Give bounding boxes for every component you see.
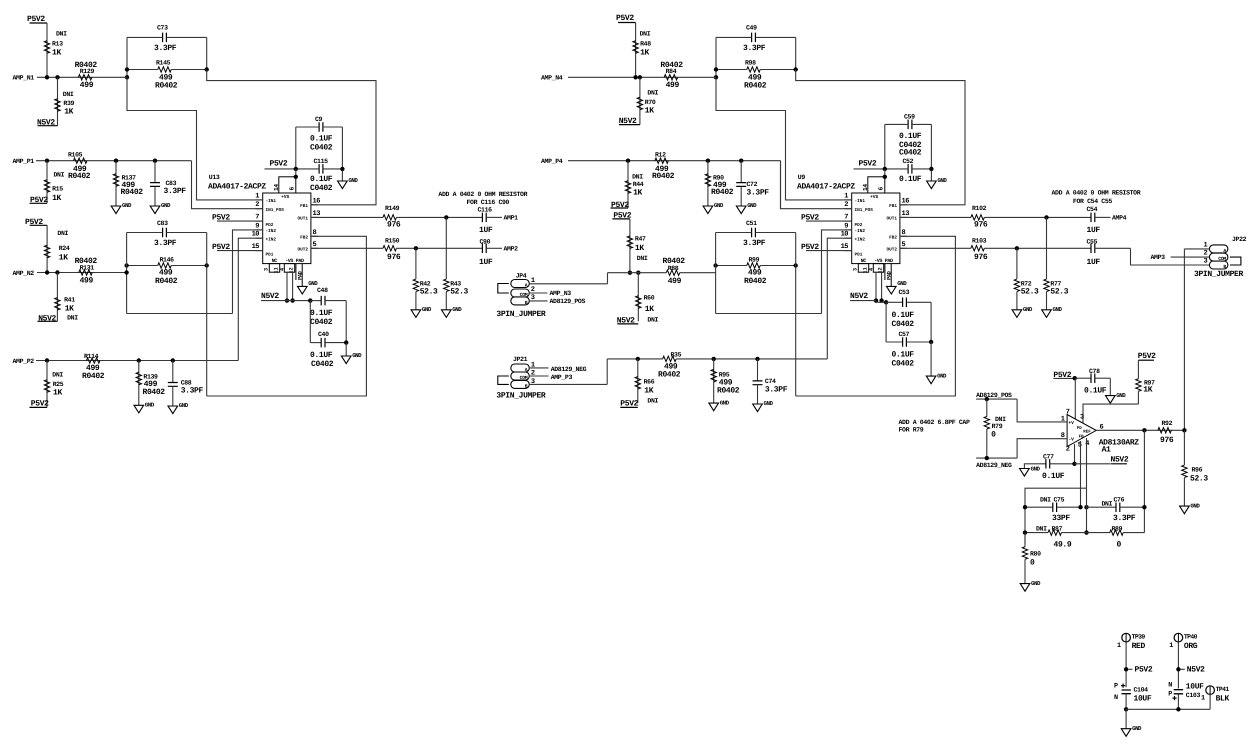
junction (1124, 667, 1128, 671)
pin 13 OUT1 (311, 216, 318, 218)
svg-text:C0402: C0402 (892, 359, 915, 368)
svg-text:DNI: DNI (57, 230, 68, 237)
svg-text:C73: C73 (157, 25, 168, 32)
ground R96 (1180, 506, 1190, 514)
wire OUT1 row R (984, 216, 1091, 218)
resistor R42 (415, 248, 417, 279)
svg-text:14: 14 (273, 184, 280, 191)
svg-text:ADD A 0402 0 OHM RESISTOR: ADD A 0402 0 OHM RESISTOR (1052, 189, 1141, 196)
svg-text:AMP_N1: AMP_N1 (13, 75, 35, 82)
svg-text:R24: R24 (59, 245, 70, 252)
svg-text:R146: R146 (160, 257, 175, 264)
svg-text:1K: 1K (53, 388, 62, 397)
resistor R103 (900, 247, 971, 249)
svg-text:DNI: DNI (1036, 526, 1047, 533)
capacitor C48 (310, 300, 321, 302)
wire REF route (1025, 488, 1087, 544)
wire FB2 route (796, 236, 956, 396)
svg-text:976: 976 (387, 253, 401, 262)
svg-text:15: 15 (252, 243, 260, 251)
svg-text:3.3PF: 3.3PF (747, 188, 770, 197)
capacitor C40 (310, 342, 321, 344)
svg-text:C116: C116 (478, 207, 493, 214)
svg-text:R102: R102 (972, 205, 987, 212)
svg-text:3.3PF: 3.3PF (743, 239, 766, 248)
resistor R146 (158, 263, 172, 268)
svg-text:976: 976 (974, 221, 988, 230)
svg-text:1K: 1K (65, 304, 74, 313)
wire C51 right (755, 232, 795, 234)
resistor R15 DNI (46, 161, 48, 204)
svg-text:-VS: -VS (285, 258, 293, 264)
resistor R105 (73, 158, 87, 163)
resistor R99 (747, 263, 761, 268)
capacitor C116 (482, 213, 486, 223)
junction (883, 167, 887, 171)
svg-text:FB1: FB1 (889, 204, 897, 209)
svg-text:3.3PF: 3.3PF (743, 44, 766, 53)
wire C115 left (296, 168, 319, 170)
svg-text:N5V2: N5V2 (1187, 666, 1205, 675)
resistor R43 (445, 217, 447, 279)
wire loop left vertical (126, 37, 128, 77)
svg-text:GND: GND (1031, 465, 1041, 472)
svg-text:IN1_POS: IN1_POS (855, 208, 874, 213)
svg-text:DNI: DNI (52, 372, 63, 379)
svg-text:2: 2 (1203, 250, 1207, 258)
resistor R150 (311, 247, 383, 249)
svg-text:12: 12 (288, 267, 294, 273)
svg-text:PD2: PD2 (855, 223, 863, 228)
junction (1023, 530, 1027, 534)
svg-text:10UF: 10UF (1186, 682, 1204, 691)
svg-text:52.3: 52.3 (450, 287, 468, 296)
svg-text:P5V2: P5V2 (616, 14, 634, 23)
ground R139 (134, 405, 144, 413)
capacitor C72 (740, 161, 742, 183)
svg-text:499: 499 (80, 277, 94, 286)
wire -IN2 riser (233, 230, 263, 314)
svg-text:GND: GND (747, 202, 757, 209)
svg-text:DNI: DNI (1102, 500, 1113, 507)
wire R99 left (716, 265, 747, 267)
wire C9 loop right (930, 124, 932, 181)
wire C52 right (912, 168, 932, 170)
svg-text:0.1UF: 0.1UF (1042, 472, 1065, 481)
svg-text:NC: NC (272, 258, 278, 264)
pins 3,11 NC (858, 264, 868, 273)
svg-text:GND: GND (937, 177, 947, 184)
svg-text:C57: C57 (899, 331, 910, 338)
svg-text:C48: C48 (317, 287, 328, 294)
svg-text:4: 4 (869, 268, 875, 271)
svg-text:R87: R87 (1052, 526, 1063, 533)
pins 3,11 NC (269, 264, 279, 273)
svg-text:GND: GND (122, 202, 132, 209)
junction (125, 75, 129, 79)
junction (55, 270, 59, 274)
wire loop2 left vertical (126, 233, 128, 314)
svg-text:+IN2: +IN2 (855, 237, 866, 242)
test point TP39 (1122, 633, 1131, 642)
wire JP22 A to AD8130 out (1183, 249, 1185, 430)
wire OUT2 row (396, 247, 482, 249)
svg-text:FOR C54 C55: FOR C54 C55 (1073, 198, 1113, 205)
junction (884, 300, 888, 304)
wire C59 left (885, 123, 908, 125)
junction (153, 159, 157, 163)
capacitor C78 (1077, 377, 1091, 379)
svg-text:7: 7 (1066, 408, 1070, 416)
wire R146 left (127, 265, 158, 267)
pin 16 FB1 (900, 204, 907, 206)
svg-text:FOR R79: FOR R79 (899, 426, 924, 433)
svg-text:C83: C83 (157, 220, 168, 227)
svg-text:DNI: DNI (632, 173, 643, 180)
wire C78 to ground (1109, 378, 1111, 395)
junction (714, 75, 718, 79)
pins 4,12 -VS (873, 264, 883, 273)
junction (45, 75, 49, 79)
svg-text:499: 499 (748, 269, 762, 278)
svg-text:AMP_P4: AMP_P4 (541, 158, 563, 165)
svg-text:TP41: TP41 (1216, 686, 1230, 693)
junction (638, 75, 642, 79)
junction (444, 215, 448, 219)
svg-text:1UF: 1UF (479, 258, 493, 267)
svg-text:AMP_P1: AMP_P1 (13, 158, 35, 165)
resistor R90 (707, 161, 709, 206)
ground C74 (753, 404, 763, 412)
junction (205, 67, 209, 71)
svg-text:OUT1: OUT1 (297, 217, 308, 222)
svg-text:DNI: DNI (56, 31, 67, 38)
capacitor C51 (752, 228, 756, 238)
svg-text:976: 976 (974, 253, 988, 262)
svg-text:R145: R145 (156, 60, 171, 67)
resistor R25 DNI (46, 361, 48, 408)
wire C104 down (1125, 694, 1127, 710)
ground R95 (709, 403, 719, 411)
svg-text:R44: R44 (633, 181, 644, 188)
svg-text:PAD: PAD (885, 258, 893, 264)
junction (1176, 667, 1180, 671)
resistor R89 (1087, 532, 1111, 534)
svg-text:R0402: R0402 (744, 82, 767, 91)
wire FB2 route (207, 236, 367, 396)
junction (294, 167, 298, 171)
svg-text:FB2: FB2 (300, 236, 308, 241)
svg-text:C90: C90 (480, 239, 491, 246)
svg-text:R13: R13 (52, 41, 63, 48)
wire +IN2 riser (238, 238, 262, 360)
junction (636, 357, 640, 361)
ground R137 (111, 206, 121, 214)
junction (45, 270, 49, 274)
wire FB1 route (207, 70, 376, 205)
capacitor C49 (752, 33, 756, 43)
capacitor C83a (154, 161, 156, 183)
resistor R41 DNI (56, 273, 58, 322)
wire C115 right (323, 168, 343, 170)
junction (1023, 505, 1027, 509)
capacitor C76 DNI (1087, 506, 1116, 508)
wire C48-C40 left (309, 301, 311, 343)
svg-text:-VS: -VS (874, 258, 882, 264)
svg-text:N: N (1168, 681, 1172, 689)
wire PD route (1083, 404, 1138, 423)
wire C9 loop right (341, 127, 343, 181)
wire C53-C57 right (930, 302, 932, 342)
resistor R145 (158, 67, 172, 72)
wire C55 to JP22 (1131, 248, 1210, 265)
svg-text:N5V2: N5V2 (1111, 455, 1129, 464)
svg-text:1: 1 (255, 192, 259, 200)
wire -VS pin4 (875, 272, 877, 300)
svg-text:C0402: C0402 (311, 360, 334, 369)
resistor R87 DNI (1025, 532, 1048, 534)
svg-text:0.1UF: 0.1UF (310, 175, 333, 184)
pin 16 FB1 (311, 204, 318, 206)
junction (344, 340, 348, 344)
svg-text:10: 10 (252, 231, 260, 239)
svg-text:6: 6 (289, 187, 296, 191)
svg-text:GND: GND (714, 202, 724, 209)
svg-text:FOR C116 C90: FOR C116 C90 (467, 199, 510, 206)
resistor R66 DNI (637, 359, 639, 403)
svg-text:NC: NC (861, 258, 867, 264)
resistor R98 (747, 67, 761, 72)
svg-text:AD8129_POS: AD8129_POS (550, 298, 586, 305)
svg-text:DNI: DNI (63, 91, 74, 98)
wire R98 left (716, 69, 747, 71)
svg-text:C0402: C0402 (310, 184, 333, 193)
svg-text:3: 3 (1203, 258, 1207, 266)
wire C40 to ground (345, 343, 347, 356)
wire C49 right (755, 36, 795, 38)
wire C83 left (127, 232, 163, 234)
junction +VS (883, 175, 887, 179)
svg-text:3: 3 (853, 268, 859, 271)
svg-text:C51: C51 (746, 220, 757, 227)
svg-text:C55: C55 (1087, 238, 1098, 245)
junction (929, 167, 933, 171)
wire to GND (1125, 709, 1127, 728)
svg-text:DNI: DNI (647, 90, 658, 97)
svg-text:1: 1 (1061, 416, 1065, 424)
wire C9 left (296, 126, 319, 128)
resistor R12 (655, 158, 669, 163)
ground TP (1121, 729, 1131, 737)
ground C115 (338, 181, 348, 189)
junction (1124, 707, 1128, 711)
junction (308, 298, 312, 302)
wire loop left vertical (715, 37, 717, 77)
resistor R95 (713, 359, 715, 403)
svg-text:7: 7 (255, 214, 259, 222)
junction (1142, 505, 1146, 509)
svg-text:PAD: PAD (297, 270, 303, 280)
junction (706, 159, 710, 163)
junction (985, 456, 989, 460)
svg-text:DNI: DNI (637, 255, 648, 262)
resistor R92 (1158, 428, 1172, 433)
op-amp A1 AD8130ARZ (1067, 415, 1096, 447)
svg-text:R0402: R0402 (121, 188, 144, 197)
svg-text:1K: 1K (644, 386, 653, 395)
svg-text:3PIN_JUMPER: 3PIN_JUMPER (1194, 270, 1244, 279)
wire C83 right (166, 232, 206, 234)
junction (1073, 376, 1077, 380)
wire R145 left (127, 69, 158, 71)
junction -VS (290, 298, 294, 302)
svg-text:1K: 1K (635, 244, 644, 253)
wire N5V2 row (287, 300, 310, 302)
svg-text:A: A (525, 282, 528, 288)
svg-text:R88: R88 (668, 265, 679, 272)
wire C103 down (1177, 695, 1179, 710)
junction (137, 358, 141, 362)
wire to -V (1017, 439, 1043, 458)
capacitor C83 (163, 228, 167, 238)
svg-text:AMP_N4: AMP_N4 (541, 75, 563, 82)
svg-text:R80: R80 (1030, 551, 1041, 558)
capacitor C103 polarized (1174, 690, 1183, 694)
svg-text:GND: GND (1132, 725, 1142, 732)
junction (712, 357, 716, 361)
wire TP41 down (1209, 694, 1211, 710)
pin 8 FB2 (900, 235, 907, 237)
junction -VS (285, 298, 289, 302)
svg-text:0: 0 (1117, 541, 1122, 550)
svg-text:499: 499 (666, 81, 680, 90)
svg-text:R66: R66 (644, 378, 655, 385)
wire FB2 vertical (206, 266, 208, 397)
svg-text:3: 3 (1080, 414, 1084, 422)
svg-text:2: 2 (255, 201, 259, 209)
svg-text:R35: R35 (671, 351, 682, 358)
svg-text:ADA4017-2ACPZ: ADA4017-2ACPZ (797, 183, 855, 192)
svg-text:GND: GND (179, 402, 189, 409)
junction (124, 263, 128, 267)
svg-text:1K: 1K (633, 188, 642, 197)
wire C48-C40 right (345, 301, 347, 343)
svg-text:AD8129_POS: AD8129_POS (976, 392, 1012, 399)
svg-text:P: P (1168, 690, 1172, 698)
wire +IN2 riser R (827, 238, 851, 359)
junction (739, 159, 743, 163)
svg-text:GND: GND (937, 372, 947, 379)
resistor R35 (663, 356, 677, 361)
svg-text:7: 7 (844, 214, 848, 222)
ground C72 (736, 206, 746, 214)
svg-text:1UF: 1UF (1087, 226, 1101, 235)
wire OUT1 row (396, 216, 482, 218)
junction (794, 67, 798, 71)
svg-text:GND: GND (1031, 580, 1041, 587)
svg-text:R149: R149 (385, 205, 400, 212)
svg-text:R92: R92 (1162, 420, 1173, 427)
wire FB1 route (796, 70, 965, 205)
capacitor C77 (1046, 459, 1050, 469)
pin 13 OUT1 (900, 216, 907, 218)
svg-text:16: 16 (313, 197, 321, 205)
resistor R48 DNI (633, 41, 638, 54)
svg-text:R79: R79 (992, 423, 1003, 430)
junction (1182, 428, 1186, 432)
svg-text:+VS: +VS (870, 194, 879, 200)
svg-text:N5V2: N5V2 (850, 292, 868, 301)
svg-text:R47: R47 (635, 236, 646, 243)
svg-text:0.1UF: 0.1UF (899, 175, 922, 184)
svg-text:R0402: R0402 (155, 82, 178, 91)
wire -IN1 route (127, 77, 263, 200)
wire AMP_N3 row (608, 272, 667, 274)
svg-text:GND: GND (1190, 502, 1200, 509)
wire C77 gnd (1024, 464, 1046, 469)
power flag P5V2 TP39 (1128, 668, 1132, 670)
pin 10 +IN2 (256, 237, 263, 239)
svg-text:499: 499 (668, 277, 682, 286)
svg-text:R0402: R0402 (658, 370, 681, 379)
pin 9 -IN2 (256, 229, 263, 231)
wire R99 right (760, 265, 795, 267)
capacitor C57 (886, 341, 903, 343)
junction (794, 263, 798, 267)
resistor R80 (1024, 533, 1026, 547)
wire N5V2 row R (876, 301, 886, 303)
capacitor C88 (172, 361, 174, 383)
wire OUT2 row R (984, 247, 1091, 249)
test point TP41 (1206, 686, 1215, 695)
svg-text:3.3PF: 3.3PF (765, 385, 788, 394)
junction (171, 358, 175, 362)
svg-text:GND: GND (452, 306, 462, 313)
resistor R149 (311, 216, 383, 218)
svg-text:FB2: FB2 (889, 236, 897, 241)
wire TP39 down (1125, 641, 1127, 687)
svg-text:IN1_POS: IN1_POS (266, 208, 285, 213)
connector JP21 (511, 364, 530, 372)
ground R42 (411, 310, 421, 318)
pins 4,12 -VS (284, 264, 294, 273)
svg-text:0: 0 (991, 430, 996, 439)
ground C88 (168, 406, 178, 414)
svg-text:3.3PF: 3.3PF (154, 44, 177, 53)
svg-text:AMP_N2: AMP_N2 (13, 270, 35, 277)
junction (713, 263, 717, 267)
resistor R88 (666, 270, 680, 275)
junction (124, 270, 128, 274)
svg-text:1K: 1K (645, 305, 654, 314)
svg-text:16: 16 (902, 197, 910, 205)
svg-text:4: 4 (1085, 440, 1089, 448)
svg-text:1K: 1K (1143, 386, 1152, 395)
capacitor C115 (319, 164, 323, 174)
ground C115 (927, 181, 937, 189)
svg-text:AMP4: AMP4 (1112, 215, 1127, 222)
resistor R70 DNI (639, 77, 641, 124)
svg-text:0.1UF: 0.1UF (892, 350, 915, 359)
svg-text:AMP_P2: AMP_P2 (13, 358, 35, 365)
svg-text:GND: GND (1023, 306, 1033, 313)
svg-text:R0402: R0402 (68, 172, 91, 181)
svg-text:-IN1: -IN1 (855, 199, 866, 204)
svg-text:0: 0 (1030, 559, 1035, 568)
svg-text:JP22: JP22 (1232, 236, 1247, 243)
junction (1084, 505, 1088, 509)
svg-text:52.3: 52.3 (420, 287, 438, 296)
